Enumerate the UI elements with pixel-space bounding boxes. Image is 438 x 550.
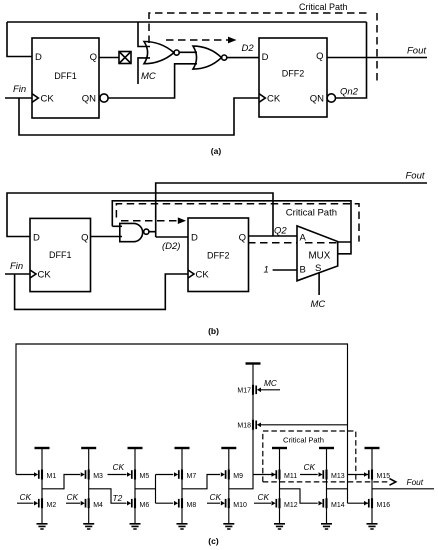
wire: M18 gate net (c)	[259, 424, 348, 426]
svg-text:A: A	[300, 233, 307, 244]
flip-flop DFF2 (b)	[188, 218, 249, 292]
wire: M16 gate branch (c)	[348, 502, 369, 504]
NAND gate (b)	[120, 223, 149, 241]
wire: feedback top rail (c)	[16, 344, 348, 503]
svg-text:T2: T2	[113, 493, 123, 503]
inverter column M15/M16	[364, 448, 390, 529]
multiplexer MUX (b)	[297, 226, 338, 281]
svg-text:DFF1: DFF1	[54, 71, 77, 81]
inverter column M11/M12	[272, 448, 298, 529]
wire: node7 to feedback rail (c)	[327, 488, 348, 490]
dashed arrow (a)	[166, 37, 237, 44]
svg-text:Qn2: Qn2	[340, 87, 359, 98]
svg-text:Fout: Fout	[407, 46, 426, 57]
wire: Q2 to MUX A (b)	[249, 235, 298, 237]
wire: DFF1 D input (a)	[7, 22, 32, 57]
svg-text:MC: MC	[311, 299, 326, 310]
wire: M15 gate branch (c)	[348, 474, 369, 476]
svg-text:Fout: Fout	[407, 477, 424, 487]
wire: M5 gate CK stub (c)	[108, 474, 127, 476]
removed-connection X symbol (a)	[119, 52, 131, 64]
wire: M17 source to M18 drain (c)	[252, 395, 254, 420]
svg-text:1: 1	[264, 265, 269, 276]
wire: NAND output D2 node (b)	[149, 232, 188, 237]
wire: M2 gate CK stub (c)	[17, 502, 34, 504]
svg-text:M13: M13	[331, 473, 345, 480]
svg-text:M18: M18	[237, 422, 251, 429]
inverter column M7/M8	[174, 448, 196, 529]
svg-text:CK: CK	[258, 492, 270, 502]
inverter column M5/M6	[127, 448, 149, 529]
wire: M18 source to node T1 (c)	[229, 430, 253, 489]
wire: Fout output (a)	[327, 57, 427, 59]
svg-text:Fin: Fin	[13, 84, 26, 95]
QN bubble DFF2 (a)	[327, 94, 335, 102]
clock triangle DFF2 (b)	[188, 270, 194, 278]
svg-text:Fout: Fout	[406, 171, 425, 182]
svg-text:M5: M5	[140, 473, 150, 480]
wire: clock distribution bottom (a)	[19, 98, 259, 135]
svg-text:Critical Path: Critical Path	[299, 2, 348, 12]
wire: constant 1 to MUX B (b)	[273, 269, 297, 271]
svg-text:CK: CK	[113, 462, 125, 472]
vdd M17	[246, 363, 261, 365]
wire: M11 gate branch (c)	[253, 474, 276, 476]
svg-text:M15: M15	[377, 473, 391, 480]
svg-text:M2: M2	[47, 502, 57, 509]
svg-text:Q: Q	[239, 233, 246, 244]
svg-text:MUX: MUX	[309, 251, 331, 262]
svg-text:(c): (c)	[208, 536, 219, 546]
svg-text:M3: M3	[93, 473, 103, 480]
svg-text:DFF2: DFF2	[207, 251, 230, 261]
dashed critical path box (c)	[263, 431, 396, 485]
svg-text:Critical Path: Critical Path	[286, 208, 337, 219]
dashed arrow (b)	[121, 217, 186, 224]
svg-text:CK: CK	[210, 492, 222, 502]
svg-text:CK: CK	[304, 462, 316, 472]
wire: QN2 feedback riser (a)	[336, 22, 367, 98]
QN bubble DFF1 (a)	[100, 94, 108, 102]
wire: Fout output (c)	[372, 488, 434, 490]
wire: feedback into NOR1 upper input (a)	[138, 22, 150, 47]
svg-text:Q: Q	[90, 52, 97, 63]
svg-text:QN: QN	[82, 94, 96, 105]
svg-text:S: S	[315, 263, 321, 274]
wire: M4 gate CK stub (c)	[66, 502, 80, 504]
svg-text:(D2): (D2)	[162, 241, 180, 252]
svg-text:M10: M10	[233, 502, 247, 509]
wire: NOR1 output to NOR2 (a)	[179, 51, 197, 53]
svg-text:D: D	[35, 52, 42, 63]
svg-text:M8: M8	[187, 502, 197, 509]
wire: Fin input (a)	[5, 97, 32, 99]
svg-text:CK: CK	[67, 492, 79, 502]
inverter column M1/M2	[34, 448, 56, 529]
svg-text:M17: M17	[237, 387, 251, 394]
wire: MUX select MC (b)	[318, 273, 320, 296]
svg-text:M12: M12	[284, 502, 298, 509]
svg-text:M14: M14	[331, 502, 345, 509]
dashed critical path box (a)	[149, 13, 377, 81]
clock triangle DFF1 (b)	[30, 270, 36, 278]
svg-text:M7: M7	[187, 473, 197, 480]
wire: M12 gate CK stub (c)	[254, 502, 271, 504]
svg-text:(a): (a)	[211, 146, 222, 156]
svg-text:MC: MC	[141, 71, 156, 82]
inverter column M13/M14	[319, 448, 345, 529]
svg-text:Q2: Q2	[274, 226, 287, 237]
flip-flop DFF2 (a)	[259, 38, 327, 117]
svg-text:M9: M9	[233, 473, 243, 480]
svg-text:MC: MC	[264, 378, 278, 388]
transistor M18	[237, 420, 261, 430]
svg-text:D: D	[262, 52, 269, 63]
wire: node2 T2 to M6 gate (c)	[89, 489, 127, 503]
svg-text:D: D	[33, 233, 40, 244]
dashed critical path loop (b)	[116, 204, 359, 243]
wire: M10 gate CK stub (c)	[207, 502, 220, 504]
svg-text:QN: QN	[310, 94, 324, 105]
svg-text:Q: Q	[316, 51, 323, 62]
wire: Q2 feedback to DFF1 D (b)	[7, 193, 273, 237]
wire: Fin input (b)	[5, 273, 30, 275]
svg-text:D2: D2	[242, 43, 255, 54]
wire: node6 to M14 gate (c)	[280, 489, 318, 503]
wire: MC input stub (a)	[138, 58, 150, 84]
svg-text:M11: M11	[284, 473, 297, 480]
svg-text:DFF1: DFF1	[49, 250, 72, 260]
wire: feedback top rail (a)	[7, 21, 367, 23]
wire: node3 to M7 and M8 gates (c)	[135, 475, 173, 504]
svg-text:DFF2: DFF2	[282, 69, 305, 79]
svg-text:M6: M6	[140, 502, 150, 509]
svg-text:CK: CK	[41, 94, 55, 105]
svg-text:B: B	[300, 265, 306, 276]
clock triangle DFF1 (a)	[32, 94, 38, 103]
inverter column M3/M4	[81, 448, 103, 529]
inverter column M9/M10	[221, 448, 247, 529]
svg-text:CK: CK	[267, 94, 281, 105]
wire: DFF1 Q to NAND (b)	[91, 236, 123, 238]
wire: D2 to DFF2 (a)	[227, 57, 259, 59]
svg-text:CK: CK	[20, 492, 32, 502]
wire: NAND upper input stub (b)	[112, 225, 122, 227]
svg-text:(b): (b)	[208, 326, 219, 336]
svg-text:Q: Q	[81, 233, 88, 244]
svg-text:M16: M16	[377, 502, 391, 509]
wire: M13 gate CK stub (c)	[300, 474, 318, 476]
flip-flop DFF1 (b)	[30, 218, 91, 291]
wire: M17 drain (c)	[252, 364, 254, 386]
wire: clock distribution bottom (b)	[15, 274, 188, 309]
svg-text:M1: M1	[47, 473, 57, 480]
wire: node4 to M9 gate (c)	[182, 475, 220, 489]
wire: DFF1 Q output (a)	[99, 57, 119, 59]
wire: node1 to M3 gate (c)	[42, 475, 80, 489]
wire: DFF1 QN feedback to NOR2 (a)	[108, 64, 197, 98]
svg-text:CK: CK	[196, 270, 210, 281]
clock triangle DFF2 (a)	[259, 94, 265, 103]
svg-text:Fin: Fin	[10, 261, 23, 272]
svg-text:Critical Path: Critical Path	[283, 435, 324, 444]
wire: MUX output feedback box (b)	[112, 201, 351, 254]
svg-text:CK: CK	[38, 270, 52, 281]
svg-text:M4: M4	[93, 502, 103, 509]
wire: M17 gate stub MC (c)	[259, 389, 280, 391]
transistor M17	[237, 385, 261, 395]
flip-flop DFF1 (a)	[32, 38, 99, 118]
NOR gate 2 (a)	[193, 46, 227, 69]
NOR gate 1 (a)	[144, 42, 179, 64]
wire: Fout tap (b)	[156, 183, 427, 237]
svg-text:D: D	[191, 233, 198, 244]
